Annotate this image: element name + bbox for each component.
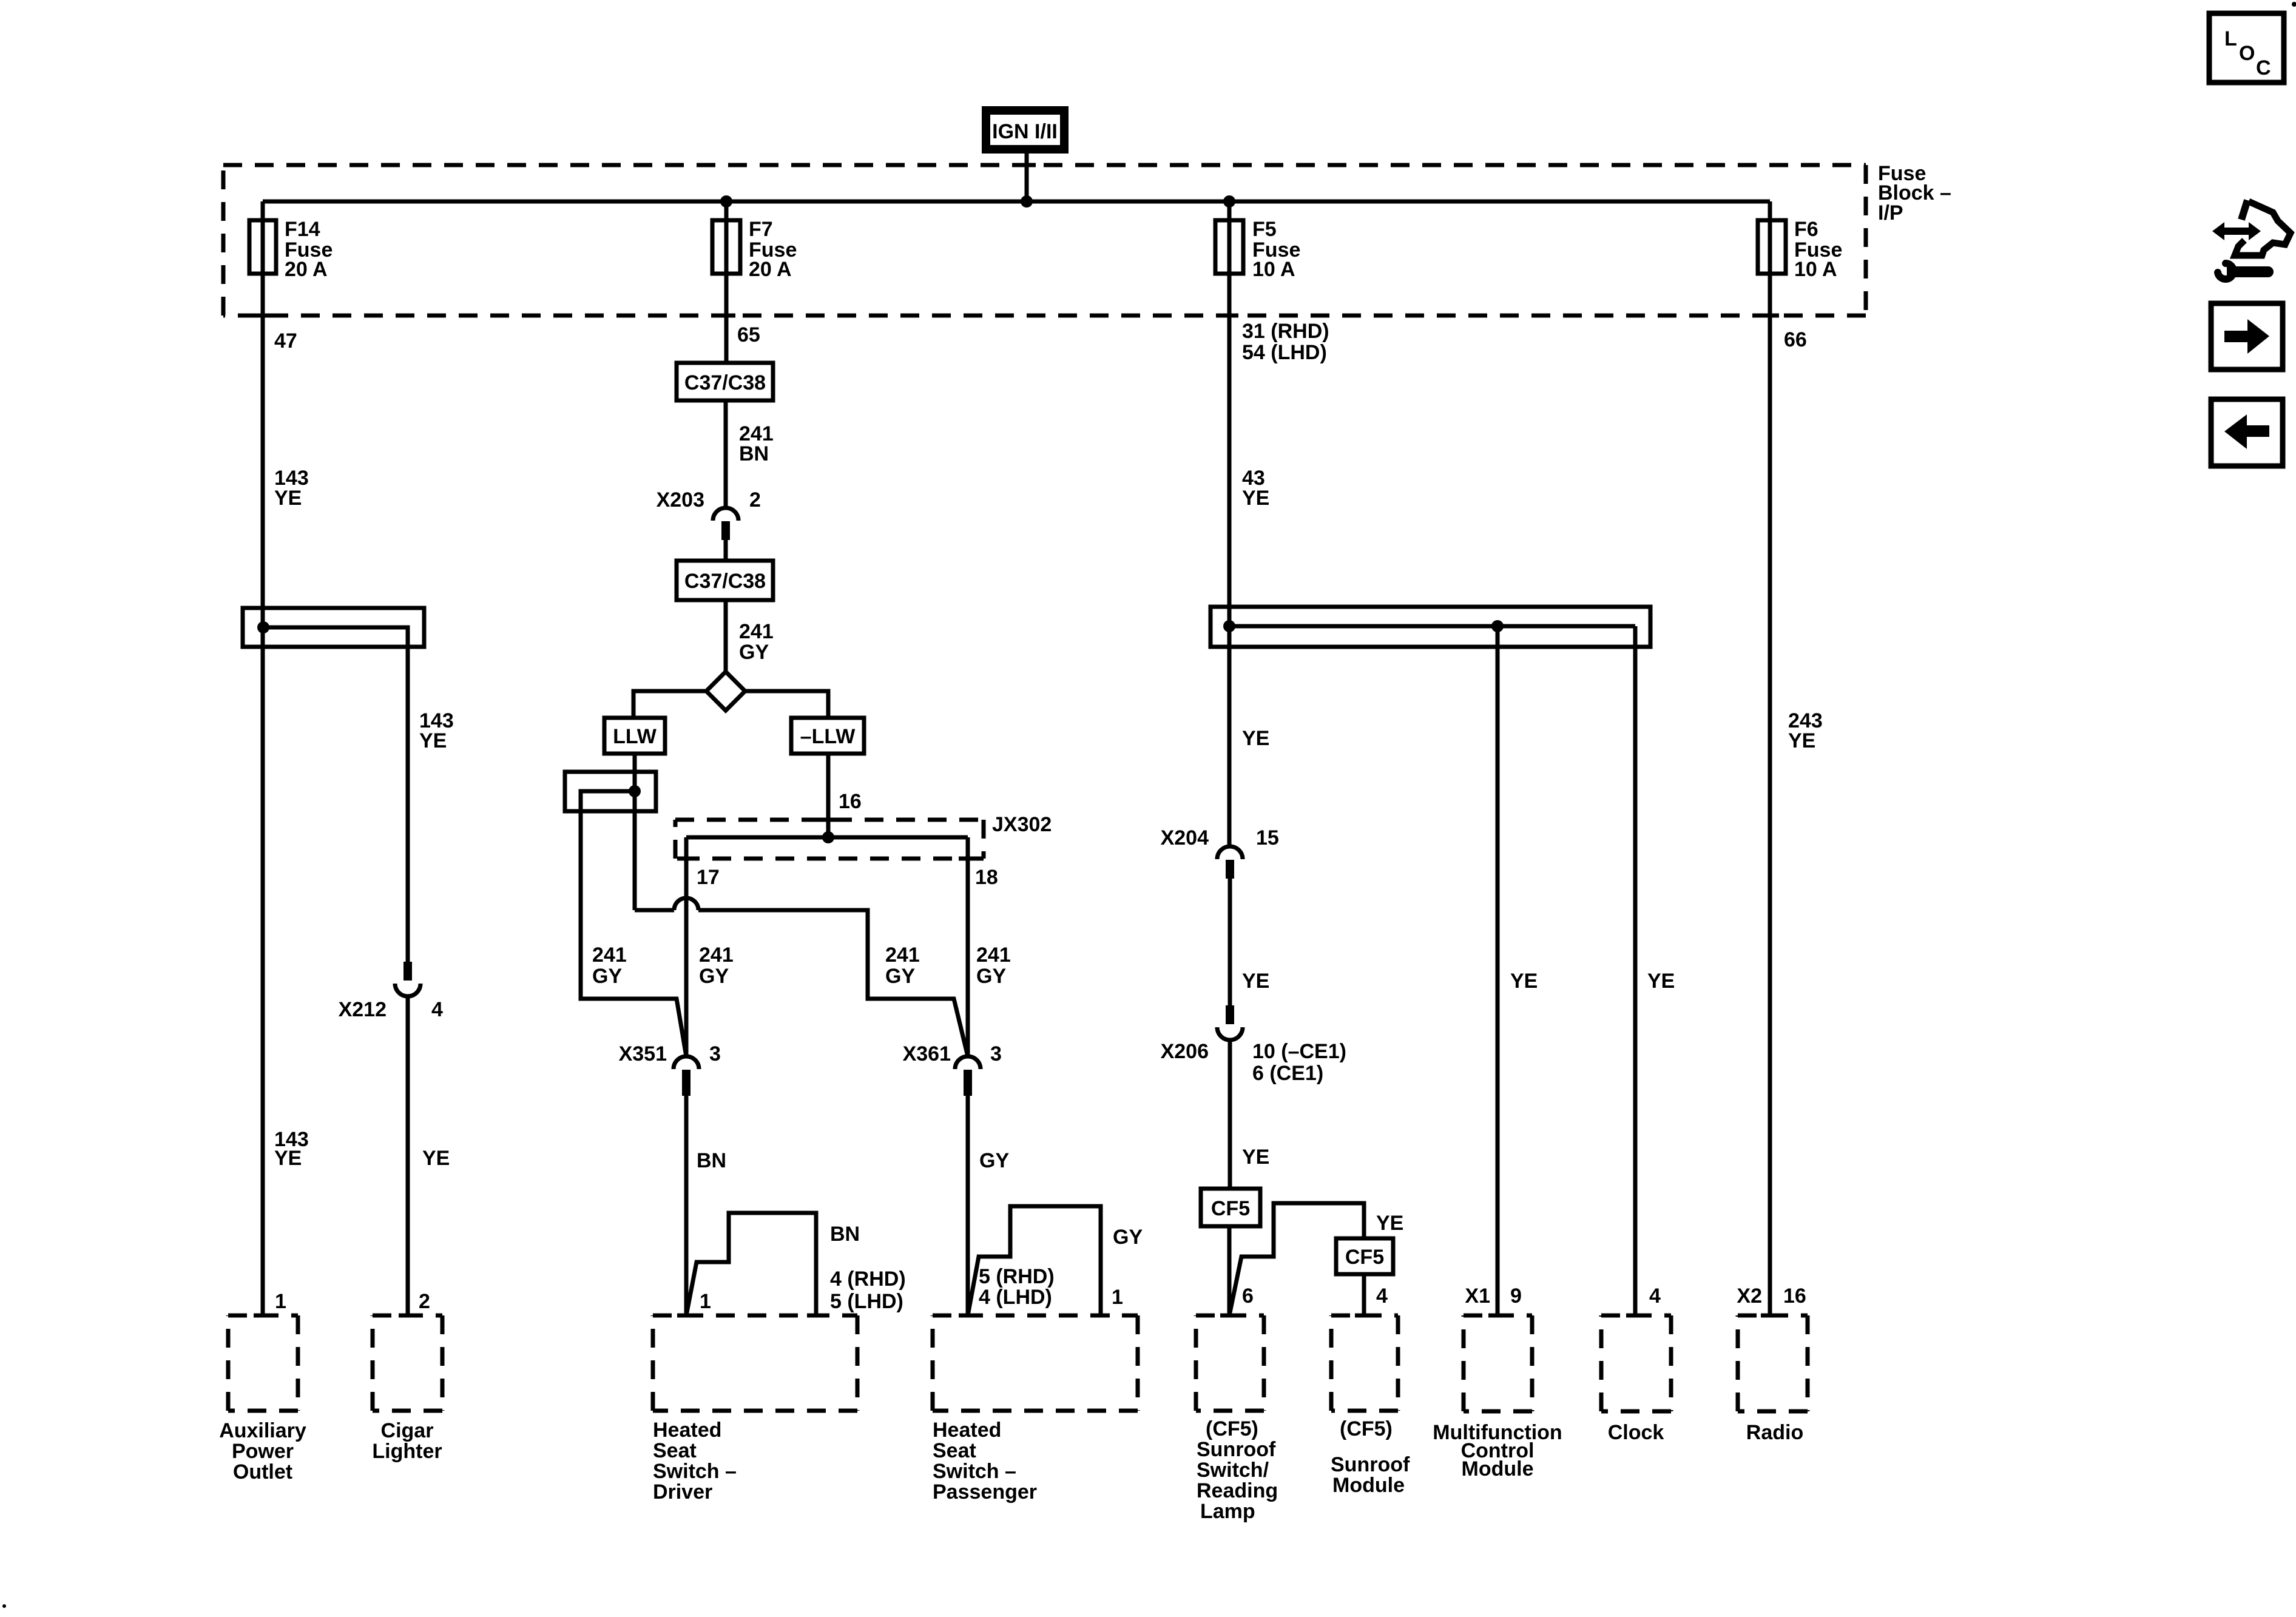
wire JX302 internal bar [686, 836, 968, 840]
svg-text:GY: GY [976, 965, 1006, 988]
svg-text:X206: X206 [1161, 1040, 1209, 1063]
svg-text:GY: GY [699, 965, 729, 988]
net label -LLW box [791, 718, 864, 754]
wire F14 branch [261, 201, 265, 1315]
wire mid splice to X351 leg [581, 791, 686, 1056]
node splice dot F5 [1223, 620, 1235, 632]
svg-text:IGN I/II: IGN I/II [992, 120, 1058, 143]
svg-text:241: 241 [699, 944, 734, 967]
wire ignition bus [263, 200, 1770, 204]
svg-text:BN: BN [697, 1149, 726, 1172]
svg-text:F6: F6 [1794, 218, 1818, 241]
svg-text:BN: BN [830, 1223, 860, 1246]
svg-text:X351: X351 [619, 1042, 667, 1065]
wire splice bar right [1229, 624, 1635, 629]
svg-text:YE: YE [1242, 727, 1269, 750]
svg-text:2: 2 [419, 1290, 430, 1313]
svg-text:X361: X361 [903, 1042, 951, 1065]
svg-text:31 (RHD): 31 (RHD) [1242, 320, 1329, 343]
svg-text:Outlet: Outlet [233, 1460, 292, 1484]
svg-text:Auxiliary: Auxiliary [219, 1419, 306, 1442]
fuse F5 10A [1215, 220, 1243, 274]
svg-text:47: 47 [274, 329, 297, 353]
junction block JX302 dashed box [675, 818, 984, 822]
svg-text:Lighter: Lighter [372, 1440, 442, 1463]
svg-text:10 A: 10 A [1252, 258, 1295, 281]
svg-text:GY: GY [885, 965, 915, 988]
icon LOC reference box [2209, 13, 2284, 83]
device Heated Seat Switch Passenger dashed box [933, 1314, 1138, 1318]
svg-text:241: 241 [592, 944, 627, 967]
svg-text:Power: Power [232, 1440, 294, 1463]
node F5 bus junction [1223, 195, 1235, 208]
wire F6 radio branch [1768, 201, 1772, 1315]
device Multifunction Control Module dashed box [1464, 1314, 1532, 1318]
svg-text:YE: YE [1242, 487, 1269, 510]
device Radio dashed box [1738, 1314, 1808, 1318]
svg-text:3: 3 [990, 1042, 1002, 1065]
svg-text:F7: F7 [749, 218, 773, 241]
wire X204 to X206 YE [1228, 879, 1232, 1007]
svg-text:20 A: 20 A [285, 258, 328, 281]
svg-text:CF5: CF5 [1211, 1197, 1250, 1220]
svg-text:GY: GY [592, 965, 622, 988]
device Heated Seat Switch Driver dashed box [653, 1314, 857, 1318]
svg-text:YE: YE [274, 1147, 302, 1170]
svg-text:Seat: Seat [933, 1439, 976, 1462]
wire CF5 to sunroof switch pin 6 [1227, 1226, 1232, 1315]
wire sunroof switch to module branch [1229, 1203, 1364, 1315]
icon forward arrow box [2211, 303, 2283, 370]
net label LLW box [604, 718, 665, 754]
svg-text:Lamp: Lamp [1200, 1500, 1255, 1523]
svg-text:5 (LHD): 5 (LHD) [830, 1290, 903, 1313]
svg-text:10 (–CE1): 10 (–CE1) [1252, 1040, 1346, 1063]
wire X203 to C37/C38 [724, 540, 728, 561]
wire splice to clock YE [1633, 626, 1638, 1315]
wire splice to -LLW [745, 691, 828, 718]
svg-text:66: 66 [1784, 328, 1807, 351]
svg-text:X203: X203 [657, 488, 704, 511]
svg-text:X1: X1 [1465, 1284, 1490, 1308]
svg-text:YE: YE [1376, 1212, 1403, 1235]
fuse F7 20A [712, 220, 740, 274]
svg-text:–LLW: –LLW [800, 725, 856, 748]
power feed IGN I/II box [986, 110, 1064, 149]
svg-text:4: 4 [1649, 1284, 1661, 1308]
net label CF5 box sunroof module [1336, 1238, 1393, 1274]
icon wrench [2218, 263, 2234, 279]
svg-text:16: 16 [1783, 1284, 1806, 1308]
wire X206 to CF5 YE [1228, 1040, 1232, 1189]
svg-text:10 A: 10 A [1794, 258, 1837, 281]
page mark bottom left [2, 1604, 6, 1608]
wire cigar lighter branch [263, 627, 408, 964]
device Auxiliary Power Outlet dashed box [228, 1314, 298, 1318]
svg-text:2: 2 [749, 488, 761, 511]
svg-text:GY: GY [979, 1149, 1009, 1172]
wire LLW horizontal with hop [635, 908, 674, 913]
svg-text:X212: X212 [339, 998, 387, 1021]
svg-text:17: 17 [697, 866, 720, 889]
connector X361 pin 3 [955, 1056, 981, 1069]
svg-text:YE: YE [1788, 729, 1815, 752]
svg-text:(CF5): (CF5) [1340, 1417, 1393, 1440]
svg-text:I/P: I/P [1878, 201, 1903, 224]
svg-text:54 (LHD): 54 (LHD) [1242, 341, 1327, 364]
svg-text:F14: F14 [285, 218, 320, 241]
svg-text:20 A: 20 A [749, 258, 792, 281]
svg-text:X2: X2 [1737, 1284, 1762, 1308]
svg-text:YE: YE [1242, 1146, 1269, 1169]
svg-text:Driver: Driver [653, 1480, 712, 1504]
svg-text:15: 15 [1256, 826, 1279, 849]
splice connector block left [243, 608, 424, 647]
wire splice to multifunction YE [1496, 626, 1500, 1315]
net label CF5 box sunroof switch [1201, 1189, 1260, 1226]
device Clock dashed box [1601, 1314, 1671, 1318]
svg-text:YE: YE [422, 1147, 450, 1170]
svg-text:Switch –: Switch – [933, 1460, 1016, 1483]
svg-text:Module: Module [1332, 1474, 1405, 1497]
svg-text:Sunroof: Sunroof [1331, 1453, 1410, 1476]
connector X206 pin 10/6 [1226, 1005, 1234, 1024]
wire F7 branch upper [724, 201, 729, 363]
fuse F6 10A [1758, 220, 1786, 274]
node F7 bus junction [720, 195, 732, 208]
connector C37/C38 lower [677, 561, 773, 600]
svg-text:5 (RHD): 5 (RHD) [979, 1265, 1055, 1288]
svg-text:L: L [2224, 27, 2237, 50]
svg-text:YE: YE [1510, 970, 1538, 993]
icon back arrow box [2211, 399, 2283, 466]
svg-text:YE: YE [1647, 970, 1675, 993]
wire 241 BN [724, 400, 728, 508]
connector X351 pin 3 [674, 1056, 699, 1069]
wire cigar lighter lower [406, 996, 410, 1315]
node splice dot multifunction [1491, 620, 1504, 632]
svg-text:4 (RHD): 4 (RHD) [830, 1268, 906, 1291]
svg-text:6 (CE1): 6 (CE1) [1252, 1062, 1323, 1085]
svg-text:4 (LHD): 4 (LHD) [979, 1286, 1052, 1309]
svg-text:Seat: Seat [653, 1439, 697, 1462]
svg-text:9: 9 [1510, 1284, 1522, 1308]
svg-text:O: O [2239, 42, 2255, 65]
svg-text:(CF5): (CF5) [1206, 1417, 1258, 1440]
connector X203 pin 2 [713, 508, 738, 521]
page mark top right [2292, 2, 2296, 7]
svg-text:1: 1 [700, 1290, 711, 1313]
svg-text:4: 4 [1376, 1284, 1388, 1308]
wire JX302 pin 17 down [684, 837, 689, 1056]
device Sunroof Switch Reading Lamp dashed box [1196, 1314, 1264, 1318]
svg-text:YE: YE [1242, 970, 1269, 993]
svg-text:241: 241 [885, 944, 920, 967]
svg-text:241: 241 [739, 620, 774, 643]
svg-text:X204: X204 [1161, 826, 1209, 849]
wire 241 GY to splice [724, 600, 728, 672]
svg-text:GY: GY [1113, 1226, 1143, 1249]
svg-text:Passenger: Passenger [933, 1480, 1037, 1504]
wire splice to LLW [633, 691, 706, 718]
svg-text:BN: BN [739, 442, 769, 465]
svg-text:YE: YE [274, 487, 302, 510]
svg-text:C37/C38: C37/C38 [684, 570, 766, 593]
wire F5 branch upper [1227, 201, 1232, 846]
icon double arrow [2212, 222, 2261, 240]
svg-text:18: 18 [975, 866, 998, 889]
connector C37/C38 upper [677, 363, 773, 400]
node splice dot left [257, 621, 269, 633]
connector X212 [403, 962, 412, 981]
svg-text:LLW: LLW [613, 725, 657, 748]
svg-text:Switch/: Switch/ [1197, 1459, 1269, 1482]
svg-text:Cigar: Cigar [381, 1419, 434, 1442]
wire -LLW pin 16 to JX302 [826, 754, 831, 837]
node splice dot mid [629, 785, 641, 797]
node JX302 junction [822, 831, 834, 843]
svg-text:Heated: Heated [653, 1419, 721, 1442]
svg-text:GY: GY [739, 641, 769, 664]
svg-text:F5: F5 [1252, 218, 1277, 241]
wire X351 to driver switch BN [684, 1096, 689, 1315]
svg-text:Radio: Radio [1746, 1421, 1803, 1444]
splice connector block mid [565, 772, 656, 811]
svg-text:C37/C38: C37/C38 [684, 371, 766, 394]
svg-text:6: 6 [1242, 1284, 1254, 1308]
fuse F14 20A [249, 220, 276, 274]
svg-text:C: C [2256, 56, 2271, 79]
wire LLW down [633, 754, 637, 910]
svg-text:Sunroof: Sunroof [1197, 1438, 1276, 1461]
svg-text:JX302: JX302 [992, 813, 1052, 836]
device Sunroof Module dashed box [1331, 1314, 1398, 1318]
wire driver switch loop BN [686, 1213, 816, 1315]
svg-text:Clock: Clock [1608, 1421, 1664, 1444]
svg-text:3: 3 [709, 1042, 721, 1065]
svg-text:Module: Module [1462, 1457, 1534, 1480]
svg-text:1: 1 [1112, 1286, 1123, 1309]
svg-text:241: 241 [976, 944, 1011, 967]
splice diamond S-splice [706, 672, 745, 711]
device Cigar Lighter dashed box [373, 1314, 442, 1318]
wire IGN drop [1025, 154, 1029, 201]
svg-text:Heated: Heated [933, 1419, 1001, 1442]
svg-text:CF5: CF5 [1345, 1246, 1384, 1269]
svg-text:1: 1 [275, 1290, 286, 1313]
node IGN bus junction [1021, 195, 1033, 208]
svg-text:4: 4 [431, 998, 443, 1021]
fuse block I/P dashed box [223, 163, 1866, 167]
svg-text:16: 16 [839, 790, 862, 813]
wire JX302 pin 18 down [966, 837, 970, 1056]
svg-text:65: 65 [737, 323, 760, 346]
wire passenger switch loop GY [968, 1206, 1101, 1315]
svg-text:Reading: Reading [1197, 1479, 1278, 1502]
connector X204 pin 15 [1217, 846, 1243, 859]
icon connector end view hand [2241, 200, 2247, 220]
wire X361 to passenger switch GY [966, 1096, 970, 1315]
svg-text:Switch –: Switch – [653, 1460, 737, 1483]
splice connector block right [1210, 607, 1650, 647]
wire CF5 to sunroof module pin 4 [1362, 1274, 1366, 1315]
svg-text:YE: YE [419, 729, 447, 752]
